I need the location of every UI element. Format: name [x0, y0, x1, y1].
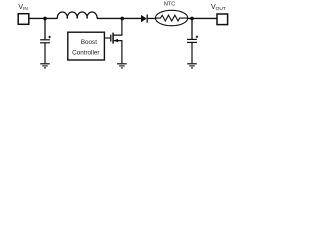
svg-text:NTC: NTC: [164, 2, 176, 8]
wire inductor to diode: [97, 17, 141, 19]
wire VIN to inductor: [29, 17, 58, 19]
svg-text:Controller: Controller: [72, 49, 99, 56]
ground (Q1 source): [117, 64, 127, 68]
wire NTC to VOUT: [188, 17, 217, 19]
svg-text:Boost: Boost: [81, 39, 97, 46]
ground (COUT): [187, 64, 197, 68]
node A (input junction): [43, 17, 47, 21]
wire diode to NTC: [148, 17, 156, 19]
node B (drain junction): [120, 17, 124, 21]
wire node A to CIN: [44, 18, 46, 39]
transistor Q1 (N-MOSFET): [111, 18, 122, 63]
wire node C to COUT: [191, 18, 193, 39]
diode D1: [141, 15, 147, 23]
thermistor NTC: [155, 10, 187, 25]
terminal VIN: [18, 14, 29, 25]
capacitor COUT: [187, 36, 198, 64]
block U1 boost controller: [68, 32, 105, 60]
node C (output junction): [190, 17, 194, 21]
terminal VOUT: [217, 14, 228, 25]
ground (CIN): [40, 64, 50, 68]
capacitor CIN: [40, 36, 51, 64]
wire gate: [105, 37, 111, 39]
inductor L1: [57, 12, 97, 19]
